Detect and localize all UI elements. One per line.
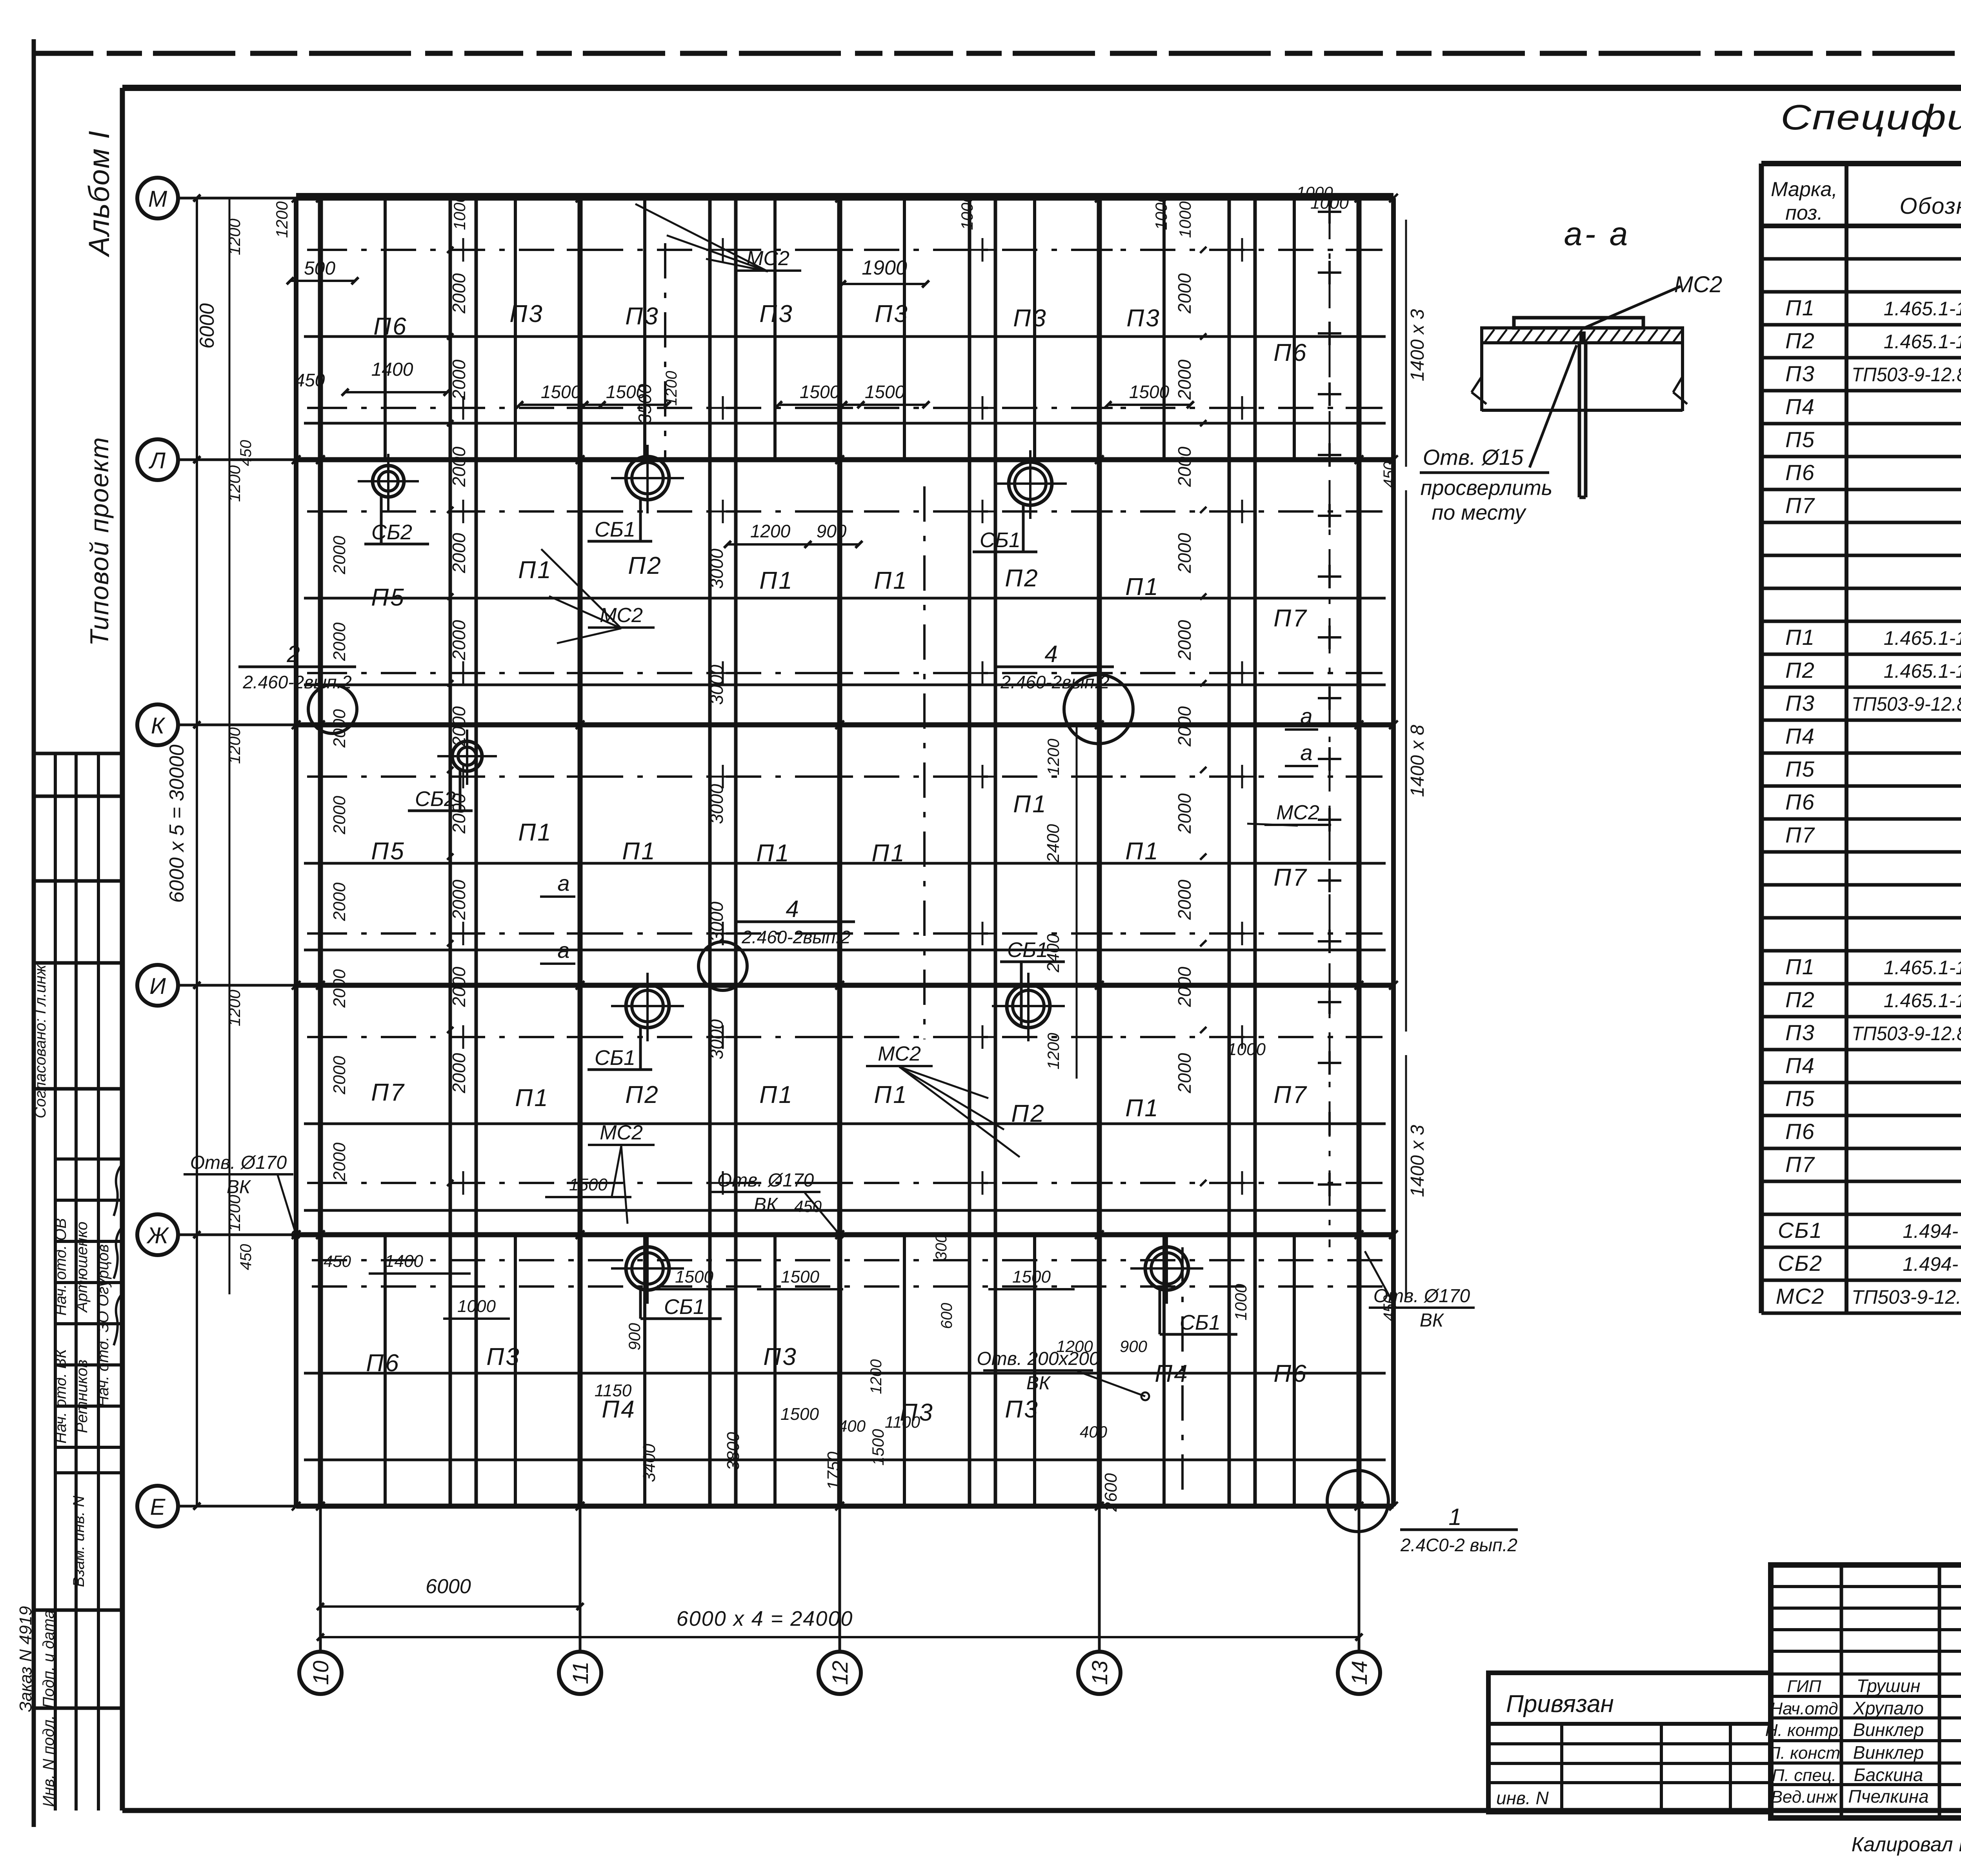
svg-text:П3: П3 xyxy=(486,1343,520,1370)
svg-text:П1: П1 xyxy=(874,567,908,594)
svg-text:1200: 1200 xyxy=(225,1195,244,1232)
svg-text:СБ1: СБ1 xyxy=(1778,1218,1823,1243)
svg-text:2000: 2000 xyxy=(449,1053,469,1094)
svg-text:а: а xyxy=(557,871,569,895)
svg-text:П5: П5 xyxy=(371,584,405,611)
svg-text:450: 450 xyxy=(794,1197,822,1215)
svg-text:2600: 2600 xyxy=(1101,1473,1121,1512)
svg-text:1.494- 24 вып.1: 1.494- 24 вып.1 xyxy=(1903,1220,1961,1242)
svg-text:П6: П6 xyxy=(373,313,407,340)
svg-text:10: 10 xyxy=(308,1661,333,1685)
svg-text:1.494- 24 вып.1: 1.494- 24 вып.1 xyxy=(1903,1253,1961,1275)
svg-text:П4: П4 xyxy=(1785,724,1815,748)
svg-text:450: 450 xyxy=(324,1252,351,1270)
svg-text:а: а xyxy=(1300,704,1312,728)
svg-text:Марка,: Марка, xyxy=(1771,178,1837,201)
svg-text:Л: Л xyxy=(148,448,166,473)
svg-text:1200: 1200 xyxy=(273,201,291,238)
svg-text:Взам. инв. N: Взам. инв. N xyxy=(70,1496,87,1587)
svg-text:1000: 1000 xyxy=(1152,193,1170,230)
svg-text:П. конст: П. конст xyxy=(1768,1743,1840,1763)
svg-text:450: 450 xyxy=(237,1244,255,1270)
svg-text:2000: 2000 xyxy=(449,793,469,834)
svg-text:Обозначение: Обозначение xyxy=(1899,193,1961,219)
svg-text:450: 450 xyxy=(1381,462,1398,488)
svg-text:1000: 1000 xyxy=(958,193,976,230)
svg-text:2000: 2000 xyxy=(449,879,469,920)
svg-text:П3: П3 xyxy=(1785,691,1815,715)
svg-text:1000: 1000 xyxy=(1232,1284,1250,1321)
svg-text:П. спец.: П. спец. xyxy=(1772,1766,1836,1785)
svg-text:а: а xyxy=(1300,740,1312,765)
svg-text:2000: 2000 xyxy=(449,446,469,487)
svg-text:П6: П6 xyxy=(1785,460,1815,485)
svg-text:Артюшенко: Артюшенко xyxy=(73,1222,91,1313)
svg-text:4: 4 xyxy=(1044,641,1057,667)
svg-text:П3: П3 xyxy=(1126,305,1161,332)
svg-text:1200: 1200 xyxy=(750,521,791,541)
svg-text:СБ1: СБ1 xyxy=(664,1295,705,1319)
svg-text:1: 1 xyxy=(1448,1504,1461,1530)
svg-text:3000: 3000 xyxy=(706,901,727,942)
svg-text:6000: 6000 xyxy=(196,303,218,349)
svg-text:Ретников: Ретников xyxy=(73,1359,91,1433)
svg-text:П2: П2 xyxy=(1785,987,1815,1012)
svg-text:1.465.1-10/82 вып.1: 1.465.1-10/82 вып.1 xyxy=(1884,990,1961,1012)
svg-text:П1: П1 xyxy=(756,840,790,867)
svg-text:13: 13 xyxy=(1087,1661,1112,1685)
svg-text:СБ2: СБ2 xyxy=(371,520,412,544)
svg-text:П3: П3 xyxy=(1013,305,1047,332)
svg-text:1000: 1000 xyxy=(450,193,469,230)
svg-text:2000: 2000 xyxy=(449,706,469,747)
svg-text:2000: 2000 xyxy=(330,883,349,921)
svg-text:ТП503-9-12.86-КЖИ.270СБ: ТП503-9-12.86-КЖИ.270СБ xyxy=(1852,1286,1961,1308)
svg-text:1.465.1-10/82 вып.1: 1.465.1-10/82 вып.1 xyxy=(1884,627,1961,649)
svg-text:Винклер: Винклер xyxy=(1853,1720,1924,1740)
svg-text:П7: П7 xyxy=(1273,864,1308,891)
svg-text:1500: 1500 xyxy=(675,1267,713,1286)
svg-text:П4: П4 xyxy=(1785,394,1815,419)
svg-text:П2: П2 xyxy=(1785,658,1815,682)
svg-text:Типовой проект: Типовой проект xyxy=(85,437,114,646)
svg-text:П1: П1 xyxy=(518,557,552,584)
svg-text:И: И xyxy=(149,973,166,999)
svg-text:М: М xyxy=(148,186,167,212)
svg-text:а: а xyxy=(557,938,569,963)
svg-text:3000: 3000 xyxy=(706,548,727,589)
svg-text:1500: 1500 xyxy=(780,1405,819,1424)
svg-text:1500: 1500 xyxy=(569,1175,608,1194)
svg-text:МС2: МС2 xyxy=(600,1121,643,1144)
svg-text:2000: 2000 xyxy=(330,1056,349,1095)
svg-text:1400: 1400 xyxy=(371,359,413,380)
svg-text:1.465.1-10/82 вып.1: 1.465.1-10/82 вып.1 xyxy=(1884,957,1961,979)
svg-text:450: 450 xyxy=(1381,1295,1398,1321)
svg-text:П3: П3 xyxy=(1785,1020,1815,1045)
svg-text:МС2: МС2 xyxy=(1674,272,1722,297)
svg-text:1200: 1200 xyxy=(225,465,244,502)
svg-text:1500: 1500 xyxy=(865,382,905,402)
svg-text:П7: П7 xyxy=(371,1079,405,1106)
svg-text:1200: 1200 xyxy=(1044,1033,1062,1070)
svg-text:ТП503-9-12.86 -КЖИ.050.СБ: ТП503-9-12.86 -КЖИ.050.СБ xyxy=(1852,693,1961,715)
svg-text:МС2: МС2 xyxy=(600,604,643,627)
svg-text:2000: 2000 xyxy=(449,966,469,1007)
svg-text:1200: 1200 xyxy=(225,990,244,1026)
svg-text:П5: П5 xyxy=(1785,1086,1815,1111)
svg-text:П3: П3 xyxy=(763,1343,797,1370)
svg-text:Баскина: Баскина xyxy=(1854,1765,1923,1785)
svg-text:П7: П7 xyxy=(1785,1152,1815,1177)
svg-text:П1: П1 xyxy=(1125,573,1159,600)
svg-text:1000: 1000 xyxy=(457,1297,496,1316)
svg-text:Спецификация к схеме расположе: Спецификация к схеме расположения xyxy=(1781,98,1961,137)
svg-text:1400 х 8: 1400 х 8 xyxy=(1407,725,1428,797)
svg-text:1000: 1000 xyxy=(1176,201,1194,238)
svg-text:П4: П4 xyxy=(1785,1053,1815,1078)
svg-text:П1: П1 xyxy=(1125,1095,1159,1122)
svg-text:Согласовано: Гл.инж.: Согласовано: Гл.инж. xyxy=(32,961,49,1119)
svg-text:Отв. Ø15: Отв. Ø15 xyxy=(1423,445,1524,469)
svg-text:3000: 3000 xyxy=(706,1019,727,1059)
svg-text:2400: 2400 xyxy=(1044,934,1063,973)
svg-text:2: 2 xyxy=(286,641,300,667)
svg-text:П1: П1 xyxy=(871,840,906,867)
svg-text:1.465.1-10/82 вып.1: 1.465.1-10/82 вып.1 xyxy=(1884,298,1961,320)
svg-text:3800: 3800 xyxy=(724,1432,743,1470)
svg-text:2000: 2000 xyxy=(449,620,469,661)
svg-text:Калировал Качнева: Калировал Качнева xyxy=(1852,1833,1961,1856)
svg-text:а- а: а- а xyxy=(1564,215,1630,252)
svg-text:П1: П1 xyxy=(622,838,656,865)
svg-text:П2: П2 xyxy=(1005,565,1039,592)
svg-text:ВК: ВК xyxy=(1420,1310,1444,1331)
svg-text:2.460-2вып.2: 2.460-2вып.2 xyxy=(242,672,352,692)
svg-text:П1: П1 xyxy=(759,567,793,594)
svg-text:П3: П3 xyxy=(625,303,659,330)
svg-text:П6: П6 xyxy=(1785,1119,1815,1144)
svg-text:2000: 2000 xyxy=(1174,273,1195,314)
svg-text:2000: 2000 xyxy=(330,622,349,661)
svg-text:1400 х 3: 1400 х 3 xyxy=(1407,1125,1428,1197)
svg-text:П7: П7 xyxy=(1273,605,1308,632)
svg-text:П6: П6 xyxy=(366,1350,400,1377)
svg-text:1200: 1200 xyxy=(225,727,244,764)
svg-text:3000: 3000 xyxy=(706,784,727,824)
svg-text:450: 450 xyxy=(295,370,325,390)
svg-text:2000: 2000 xyxy=(330,709,349,748)
svg-text:СБ1: СБ1 xyxy=(1180,1311,1221,1334)
svg-text:Хрупало: Хрупало xyxy=(1853,1698,1924,1718)
svg-text:П1: П1 xyxy=(1125,838,1159,865)
svg-text:П5: П5 xyxy=(371,838,405,865)
svg-text:МС2: МС2 xyxy=(1276,801,1319,824)
svg-text:П6: П6 xyxy=(1273,339,1308,366)
svg-text:2000: 2000 xyxy=(1174,879,1195,920)
svg-text:просверлить: просверлить xyxy=(1421,476,1553,500)
svg-text:1500: 1500 xyxy=(1129,382,1170,402)
svg-text:Вед.инж: Вед.инж xyxy=(1771,1787,1838,1807)
svg-text:П3: П3 xyxy=(509,300,544,328)
svg-text:Пчелкина: Пчелкина xyxy=(1848,1786,1928,1807)
svg-text:П6: П6 xyxy=(1785,790,1815,814)
svg-text:П2: П2 xyxy=(625,1081,659,1108)
svg-text:1000: 1000 xyxy=(1296,183,1333,202)
svg-text:6000 х 5 = 30000: 6000 х 5 = 30000 xyxy=(166,744,188,903)
svg-text:Трушин: Трушин xyxy=(1857,1676,1921,1696)
svg-text:1200: 1200 xyxy=(1056,1337,1093,1356)
svg-text:инв. N: инв. N xyxy=(1496,1788,1549,1808)
svg-text:4: 4 xyxy=(786,896,799,922)
svg-text:СБ1: СБ1 xyxy=(595,1046,635,1070)
svg-text:12: 12 xyxy=(828,1661,852,1685)
svg-text:2000: 2000 xyxy=(1174,966,1195,1007)
svg-text:2000: 2000 xyxy=(330,1143,349,1181)
svg-text:300: 300 xyxy=(933,1234,950,1261)
svg-text:Винклер: Винклер xyxy=(1853,1742,1924,1763)
svg-text:450: 450 xyxy=(237,440,255,466)
svg-text:1.465.1-10/82 вып.1: 1.465.1-10/82 вып.1 xyxy=(1884,331,1961,353)
svg-text:МС2: МС2 xyxy=(1776,1284,1825,1308)
svg-text:1150: 1150 xyxy=(595,1381,632,1400)
svg-text:Нач. отд. ОВ: Нач. отд. ОВ xyxy=(52,1218,69,1316)
svg-text:ТП503-9-12.86 -КЖИ.050.СБ: ТП503-9-12.86 -КЖИ.050.СБ xyxy=(1852,1023,1961,1044)
svg-text:2000: 2000 xyxy=(1174,359,1195,400)
svg-text:2000: 2000 xyxy=(330,969,349,1008)
svg-text:Альбом I: Альбом I xyxy=(83,130,115,258)
svg-text:1500: 1500 xyxy=(869,1429,887,1466)
svg-text:1500: 1500 xyxy=(781,1267,819,1286)
svg-text:П1: П1 xyxy=(518,819,552,846)
svg-text:Нач.отд: Нач.отд xyxy=(1770,1699,1838,1718)
svg-text:ГИП: ГИП xyxy=(1787,1677,1821,1696)
svg-text:1500: 1500 xyxy=(800,382,840,402)
svg-text:900: 900 xyxy=(817,521,847,541)
svg-text:П7: П7 xyxy=(1273,1081,1308,1108)
svg-text:Нач. отд. ЗО Огурцов: Нач. отд. ЗО Огурцов xyxy=(95,1244,112,1407)
svg-text:2.460-2вып.2: 2.460-2вып.2 xyxy=(741,927,851,947)
svg-text:2.4С0-2 вып.2: 2.4С0-2 вып.2 xyxy=(1400,1535,1517,1555)
svg-text:Заказ N 4919: Заказ N 4919 xyxy=(16,1606,35,1712)
svg-text:П1: П1 xyxy=(1785,954,1815,979)
svg-text:900: 900 xyxy=(1120,1337,1148,1356)
svg-text:2000: 2000 xyxy=(449,533,469,573)
svg-text:1.465.1-10/82 вып.1: 1.465.1-10/82 вып.1 xyxy=(1884,660,1961,682)
svg-text:1200: 1200 xyxy=(225,218,244,255)
svg-text:П1: П1 xyxy=(1785,295,1815,320)
svg-text:П2: П2 xyxy=(628,552,662,579)
svg-text:П2: П2 xyxy=(1011,1100,1045,1127)
svg-text:2000: 2000 xyxy=(330,796,349,835)
svg-text:П1: П1 xyxy=(759,1081,793,1108)
svg-text:П5: П5 xyxy=(1785,427,1815,452)
svg-text:600: 600 xyxy=(938,1303,955,1329)
svg-text:3500: 3500 xyxy=(635,384,655,424)
svg-text:П2: П2 xyxy=(1785,328,1815,353)
svg-text:Отв. Ø170: Отв. Ø170 xyxy=(717,1170,814,1191)
svg-text:2000: 2000 xyxy=(1174,533,1195,573)
svg-text:2000: 2000 xyxy=(1174,793,1195,834)
svg-text:2000: 2000 xyxy=(1174,1053,1195,1094)
svg-text:ВК: ВК xyxy=(754,1194,779,1215)
svg-text:Е: Е xyxy=(150,1494,166,1520)
svg-text:СБ1: СБ1 xyxy=(595,518,635,541)
svg-text:поз.: поз. xyxy=(1785,202,1823,224)
svg-text:1400: 1400 xyxy=(385,1252,423,1271)
svg-text:Инв. N подл.: Инв. N подл. xyxy=(40,1715,57,1807)
svg-text:6000 х 4 = 24000: 6000 х 4 = 24000 xyxy=(677,1607,853,1630)
svg-text:2000: 2000 xyxy=(330,536,349,575)
svg-text:2000: 2000 xyxy=(1174,706,1195,747)
svg-text:1100: 1100 xyxy=(885,1413,920,1431)
svg-text:400: 400 xyxy=(838,1417,866,1435)
svg-text:3400: 3400 xyxy=(640,1444,659,1482)
svg-text:1500: 1500 xyxy=(541,382,581,402)
svg-text:П5: П5 xyxy=(1785,757,1815,781)
svg-text:Подп. и дата: Подп. и дата xyxy=(40,1610,57,1708)
svg-text:1750: 1750 xyxy=(824,1452,843,1490)
svg-text:1900: 1900 xyxy=(862,257,907,279)
svg-text:2000: 2000 xyxy=(449,359,469,400)
svg-text:3000: 3000 xyxy=(706,664,727,705)
svg-text:Нач. отд. ВК: Нач. отд. ВК xyxy=(52,1348,69,1444)
svg-text:1500: 1500 xyxy=(1012,1267,1051,1286)
svg-text:400: 400 xyxy=(1080,1423,1108,1441)
svg-text:П3: П3 xyxy=(1005,1396,1039,1423)
svg-text:6000: 6000 xyxy=(426,1575,471,1598)
svg-text:СБ1: СБ1 xyxy=(1007,938,1048,962)
svg-text:П7: П7 xyxy=(1785,822,1815,847)
svg-text:2400: 2400 xyxy=(1044,824,1063,863)
svg-text:ТП503-9-12.86 -КЖИ.050.СБ: ТП503-9-12.86 -КЖИ.050.СБ xyxy=(1852,364,1961,386)
svg-text:Отв. Ø170: Отв. Ø170 xyxy=(190,1152,287,1173)
svg-text:900: 900 xyxy=(625,1323,644,1350)
svg-text:П3: П3 xyxy=(759,300,793,328)
svg-text:500: 500 xyxy=(304,258,335,279)
svg-text:П6: П6 xyxy=(1273,1360,1308,1387)
svg-text:П1: П1 xyxy=(874,1081,908,1108)
svg-text:К: К xyxy=(151,713,166,739)
svg-text:11: 11 xyxy=(568,1661,593,1684)
svg-text:2.460-2вып.2: 2.460-2вып.2 xyxy=(1000,672,1110,692)
svg-text:2000: 2000 xyxy=(449,273,469,314)
svg-text:1200: 1200 xyxy=(1044,739,1062,775)
svg-text:П3: П3 xyxy=(875,300,909,328)
svg-text:МС2: МС2 xyxy=(878,1043,921,1065)
svg-text:П3: П3 xyxy=(1785,361,1815,386)
svg-text:по месту: по месту xyxy=(1432,501,1527,524)
svg-text:1200: 1200 xyxy=(663,371,680,406)
svg-text:2000: 2000 xyxy=(1174,446,1195,487)
svg-text:1400 х 3: 1400 х 3 xyxy=(1407,309,1428,381)
svg-text:П1: П1 xyxy=(1785,625,1815,650)
svg-text:Н. контр.: Н. контр. xyxy=(1765,1721,1843,1740)
svg-text:2000: 2000 xyxy=(1174,620,1195,661)
svg-text:Привязан: Привязан xyxy=(1506,1690,1614,1718)
svg-text:СБ1: СБ1 xyxy=(980,528,1021,552)
svg-text:СБ2: СБ2 xyxy=(1778,1251,1823,1276)
svg-text:П7: П7 xyxy=(1785,493,1815,518)
svg-text:1000: 1000 xyxy=(1227,1040,1266,1059)
svg-text:П4: П4 xyxy=(1155,1360,1189,1387)
svg-text:Ж: Ж xyxy=(146,1223,169,1248)
svg-text:14: 14 xyxy=(1347,1661,1372,1685)
svg-text:1200: 1200 xyxy=(868,1359,885,1394)
svg-text:П1: П1 xyxy=(515,1084,549,1112)
svg-text:П1: П1 xyxy=(1013,791,1047,818)
svg-text:ВК: ВК xyxy=(1026,1373,1051,1394)
